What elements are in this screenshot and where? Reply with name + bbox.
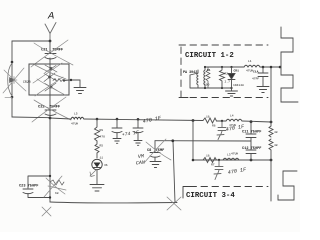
node junction (49, 40, 52, 43)
scribble X over module (33, 63, 66, 96)
svg-text:L5: L5 (74, 113, 78, 116)
svg-text:470 1F: 470 1F (142, 115, 162, 125)
resistor 48 upper (269, 126, 273, 137)
svg-text:L4: L4 (230, 115, 234, 118)
resistor R6 (203, 118, 217, 123)
svg-text:L1: L1 (248, 60, 252, 63)
svg-text:R6: R6 (212, 125, 216, 128)
wire bottom bus (50, 202, 177, 203)
node A (47, 11, 54, 23)
handwritten capacitor on top bus (218, 121, 226, 134)
inductor L1 (244, 65, 260, 67)
ground (74, 88, 86, 94)
svg-text:C12 750PF: C12 750PF (242, 147, 261, 151)
wire vertical mid riser (173, 141, 175, 203)
capacitor C8 (deleted) (150, 141, 160, 161)
resistor R9 (95, 119, 100, 141)
svg-text:CR20: CR20 (23, 80, 31, 84)
resistor R7 (203, 158, 217, 163)
handwritten capacitor on bottom bus (215, 160, 223, 173)
wire (217, 120, 227, 122)
inductor L4 (226, 119, 242, 121)
wire top row in box (205, 66, 244, 68)
wire to ground (96, 170, 98, 184)
wire lower-left horizontal (12, 116, 50, 119)
box IC module (29, 64, 69, 95)
capacitor at node 138 (133, 119, 143, 140)
svg-text:R1: R1 (207, 69, 211, 72)
svg-text:C23 750PF: C23 750PF (19, 185, 38, 189)
svg-text:68: 68 (55, 192, 59, 195)
capacitor at node 117 (112, 119, 122, 138)
dashed box CIRCUIT 3-4 (190, 186, 268, 188)
handwritten VM CAN (136, 153, 146, 166)
svg-text:100: 100 (204, 84, 210, 87)
svg-text:R9: R9 (100, 129, 104, 132)
connector edge bottom (278, 171, 297, 200)
scribble X over C8 (144, 139, 171, 163)
wire module to ground (69, 80, 80, 87)
node (49, 117, 52, 120)
svg-text:C1A: C1A (253, 71, 259, 74)
ground small (134, 141, 142, 146)
svg-text:1N4148: 1N4148 (233, 84, 244, 87)
resistor 48 lower (269, 139, 273, 150)
wire arrow from A (45, 23, 56, 42)
svg-text:PA 3042: PA 3042 (183, 71, 197, 75)
svg-text:CIRCUIT 3-4: CIRCUIT 3-4 (186, 192, 235, 200)
svg-text:2.7: 2.7 (225, 81, 231, 84)
ground small (113, 139, 121, 144)
scribble X over C22 (32, 97, 71, 122)
wire main vertical (49, 41, 51, 202)
scribble X over CR20 (3, 68, 26, 93)
wire top bus continues (84, 119, 203, 121)
handwritten note (121, 130, 139, 138)
winding (197, 67, 205, 88)
ground under C1A (257, 87, 269, 93)
transistor symbols inside module (deleted) (44, 65, 65, 91)
handwritten 470 PF (142, 115, 162, 125)
inductor L3 (223, 158, 239, 160)
svg-text:47UH: 47UH (71, 123, 78, 126)
diode X6 in circle (92, 159, 102, 169)
scribble X over C23 area (44, 176, 66, 197)
svg-text:48: 48 (274, 131, 278, 134)
wire right bus (270, 67, 272, 201)
svg-text:11: 11 (100, 157, 104, 160)
dashed box CIRCUIT 1-2 (179, 45, 268, 98)
wire left vertical (11, 41, 13, 117)
svg-text:47PF: 47PF (252, 78, 259, 81)
wire (96, 153, 98, 158)
node (11, 61, 14, 64)
svg-text:470: 470 (100, 136, 106, 139)
wire vertical from top bus (192, 121, 194, 161)
svg-text:16: 16 (206, 155, 210, 158)
resistor R2 (220, 67, 225, 88)
diode CR1 (228, 67, 235, 88)
ground (90, 185, 104, 192)
wire top bus to right (242, 121, 271, 122)
diode CR20 (deleted) (8, 63, 12, 96)
capacitor C23 loop (28, 176, 50, 198)
svg-text:+74 1F: +74 1F (121, 130, 139, 138)
svg-text:CIRCUIT 1-2: CIRCUIT 1-2 (185, 52, 234, 60)
X mark (42, 207, 51, 216)
node (96, 118, 99, 121)
capacitor C11 (246, 122, 256, 150)
wire top bus (50, 118, 71, 119)
svg-text:47UH: 47UH (231, 153, 238, 156)
svg-text:36: 36 (104, 164, 108, 167)
wire faint stub at left edge (5, 97, 12, 99)
scribble X over C21 (31, 40, 73, 67)
svg-text:CR1: CR1 (234, 70, 240, 73)
resistor R1 (206, 67, 210, 88)
svg-text:R7: R7 (211, 164, 215, 167)
ground under CR1 (226, 88, 238, 96)
svg-text:R5: R5 (100, 145, 104, 148)
resistor (deleted) beside C23 (50, 180, 64, 185)
svg-text:470 1F: 470 1F (227, 167, 247, 176)
svg-text:48: 48 (274, 144, 278, 147)
wire top horizontal (12, 40, 50, 42)
inductor L5 (71, 117, 84, 119)
X mark (167, 197, 181, 210)
ground (150, 162, 161, 168)
wire bottom row in box (196, 87, 232, 89)
svg-text:C11 750PF: C11 750PF (242, 131, 261, 135)
wire to connector (260, 66, 281, 68)
svg-text:16: 16 (206, 116, 210, 119)
connector edge top (281, 27, 298, 102)
wire mid bus (155, 140, 251, 142)
svg-text:R2: R2 (225, 73, 229, 76)
svg-text:A: A (47, 11, 54, 23)
capacitor C1A (258, 67, 268, 86)
capacitor C12 (246, 150, 256, 160)
resistor R5 (95, 141, 99, 153)
node (11, 96, 14, 99)
wire bottom branch bus (193, 159, 271, 161)
